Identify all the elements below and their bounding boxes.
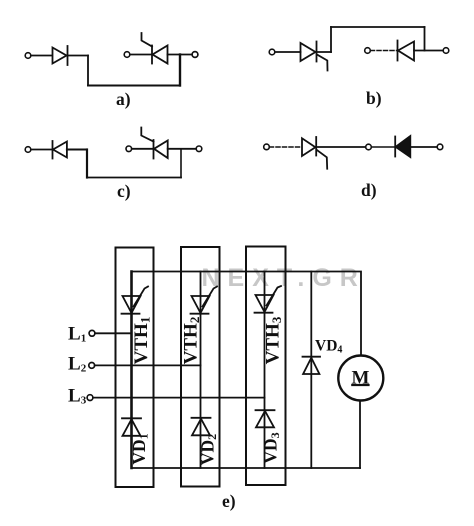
wire motor branch (down to bus) [359, 402, 361, 469]
node terminal b-left [269, 49, 275, 55]
svg-text:VD4: VD4 [315, 338, 342, 356]
wire L1 [95, 332, 132, 334]
wire b6 (dashed) [371, 50, 398, 52]
wire arm 2 [200, 272, 202, 469]
thyristor VTb (pointing right, gate down) [301, 42, 328, 71]
svg-text:c): c) [117, 181, 131, 201]
node L3 terminal [87, 395, 93, 401]
wire b1 [275, 51, 301, 53]
wire a7 [168, 54, 193, 56]
wire d3 [372, 146, 396, 148]
wire b7 [414, 50, 443, 52]
diode VD2 [192, 418, 211, 436]
wire c5 (up) [180, 149, 182, 178]
diode VDc (pointing left) [53, 141, 67, 159]
node terminal c-left [25, 147, 31, 153]
wire b2 [317, 51, 332, 53]
node terminal a-mid [124, 52, 130, 58]
node terminal b-mid [365, 48, 371, 54]
wire a4 (bottom) [88, 85, 180, 87]
diode VDd (pointing left, filled) [395, 136, 410, 157]
svg-text:L1: L1 [68, 324, 86, 345]
wire c4 (bottom) [87, 177, 181, 179]
svg-text:L3: L3 [68, 386, 87, 407]
motor M1 circle [338, 356, 383, 401]
wire a6 [130, 54, 152, 56]
node terminal c-right [196, 146, 202, 152]
thyristor VTa (pointing left, gate up) [142, 33, 168, 64]
wire L3 [93, 397, 265, 399]
thyristor VTH1 [122, 287, 149, 314]
thyristor VTd (pointing right, gate down) [302, 137, 327, 169]
svg-text:d): d) [361, 180, 377, 200]
svg-text:b): b) [366, 88, 382, 108]
module box 1 [116, 248, 154, 488]
diode VDb (pointing left) [398, 41, 415, 61]
node terminal c-mid [126, 146, 132, 152]
wire a1 [31, 55, 52, 57]
svg-text:L2: L2 [68, 354, 87, 375]
svg-text:VTH3: VTH3 [262, 316, 284, 364]
wire d1 (dashed) [270, 146, 303, 148]
wire c7 [168, 148, 196, 150]
thyristor VTH2 [191, 287, 218, 314]
wire arm 1 [130, 272, 133, 469]
diode VD4 [303, 357, 321, 374]
node terminal a-left [25, 53, 31, 59]
wire d4 [410, 146, 437, 148]
module box 2 [181, 247, 220, 487]
wire a3 (down) [87, 56, 89, 86]
svg-text:NEXT.GR: NEXT.GR [202, 264, 366, 292]
node terminal d-left [264, 144, 270, 150]
svg-text:a): a) [116, 89, 131, 109]
node L1 terminal [89, 330, 95, 336]
node terminal d-mid [366, 144, 372, 150]
wire d2 [316, 146, 365, 148]
node terminal a-right [192, 52, 198, 58]
wire c2 [67, 149, 87, 151]
wire a5 (up) [179, 55, 181, 86]
wire L2 [95, 364, 201, 366]
node terminal b-right [443, 48, 449, 54]
svg-text:VTH1: VTH1 [131, 317, 153, 365]
node L2 terminal [89, 363, 95, 369]
wire bottom bus [132, 467, 361, 469]
node terminal d-right [437, 144, 443, 150]
wire b3 (up) [330, 27, 332, 52]
wire top bus [132, 272, 362, 356]
wire a2 [68, 55, 89, 57]
diode VD3 [256, 410, 275, 427]
thyristor VTH3 [255, 286, 282, 313]
svg-text:VTH2: VTH2 [181, 317, 203, 365]
wire c3 (down) [86, 150, 88, 178]
wire c1 [31, 149, 52, 151]
wire b4 (top) [331, 26, 425, 28]
diode VDa (pointing right) [53, 46, 68, 65]
wire b5 (down) [424, 27, 426, 51]
svg-text:e): e) [222, 491, 236, 511]
module box 3 [246, 247, 286, 486]
wire arm 3 [264, 272, 266, 469]
thyristor VTc (pointing left, gate up) [141, 128, 167, 159]
motor M1 underline [352, 384, 368, 386]
wire c6 [132, 148, 154, 150]
wire VD4 branch [310, 272, 312, 469]
diode VD1 [122, 418, 141, 436]
